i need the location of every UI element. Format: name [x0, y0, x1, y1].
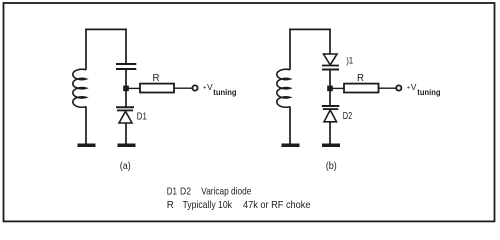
svg-text:tuning: tuning — [417, 88, 440, 97]
varicap diode D1 (a) cathode bar — [117, 109, 133, 111]
wire: diode to ground (a) — [125, 123, 127, 145]
svg-text:D1: D1 — [137, 110, 147, 122]
ground (b) middle — [322, 144, 340, 148]
wire: resistor to terminal (a) — [174, 87, 192, 89]
svg-text:)1: )1 — [346, 56, 353, 66]
terminal circle (b) — [396, 85, 401, 90]
wire: circuit (b) top horizontal — [289, 28, 331, 30]
svg-text:(b): (b) — [326, 161, 337, 172]
ground (a) middle — [118, 144, 136, 148]
ground (b) left — [282, 144, 300, 148]
wire: diode D2 to ground (b) — [329, 122, 331, 145]
wire: junction to diode D2 (b) — [329, 91, 331, 106]
svg-text:V: V — [207, 82, 213, 92]
varicap diode D1 (b) triangle — [324, 54, 338, 65]
capacitor C (a) bottom plate — [116, 68, 136, 70]
svg-text:Varicap diode: Varicap diode — [201, 186, 251, 198]
resistor R (b) — [344, 84, 379, 93]
varicap diode D1 (a) triangle — [119, 111, 132, 123]
terminal circle (a) — [192, 85, 197, 90]
wire: capacitor to junction (a) — [125, 69, 127, 89]
wire: circuit (a) top horizontal — [85, 28, 127, 30]
svg-text:47k or RF choke: 47k or RF choke — [243, 199, 311, 211]
varicap diode D1 (b) cathode bar — [322, 65, 339, 67]
ground (a) left — [78, 144, 96, 148]
svg-text:R: R — [357, 72, 364, 84]
wire: circuit (b) left branch lower vertical — [289, 107, 291, 145]
inductor L (b) — [277, 69, 290, 107]
svg-text:tuning: tuning — [213, 88, 236, 97]
varicap diode D2 (b) cathode bar — [323, 108, 339, 110]
varicap diode D2 (b) triangle — [324, 110, 337, 122]
resistor R (a) — [140, 84, 174, 93]
wire: circuit (b) left branch upper vertical — [289, 29, 291, 70]
wire: junction to resistor (b) — [332, 87, 344, 89]
svg-text:R: R — [153, 72, 160, 84]
svg-text:D2: D2 — [180, 186, 191, 198]
wire: circuit (a) left branch lower vertical — [85, 107, 87, 145]
svg-text:V: V — [411, 82, 417, 92]
wire: junction to resistor (a) — [128, 87, 140, 89]
wire: resistor to terminal (b) — [379, 87, 397, 89]
wire: circuit (a) left branch upper vertical — [85, 29, 87, 70]
svg-text:Typically 10k: Typically 10k — [183, 199, 233, 211]
capacitor C (a) top plate — [116, 63, 136, 65]
wire: circuit (b) right branch top vertical — [329, 29, 331, 54]
wire: diode D1 to junction (b) — [329, 70, 331, 90]
varicap diode D2 (b) capacitor bar — [322, 105, 340, 107]
svg-text:D1: D1 — [167, 186, 177, 198]
node junction (a) — [123, 86, 129, 92]
node junction (b) — [327, 86, 333, 92]
varicap diode D1 (a) capacitor bar — [116, 106, 134, 108]
svg-text:R: R — [167, 199, 174, 211]
svg-text:D2: D2 — [343, 110, 353, 122]
wire: circuit (a) right branch upper vertical — [125, 29, 127, 64]
inductor L (a) — [73, 69, 86, 107]
svg-text:(a): (a) — [120, 161, 131, 172]
wire: junction to diode (a) — [125, 91, 127, 107]
varicap diode D1 (b) capacitor bar — [322, 69, 339, 71]
